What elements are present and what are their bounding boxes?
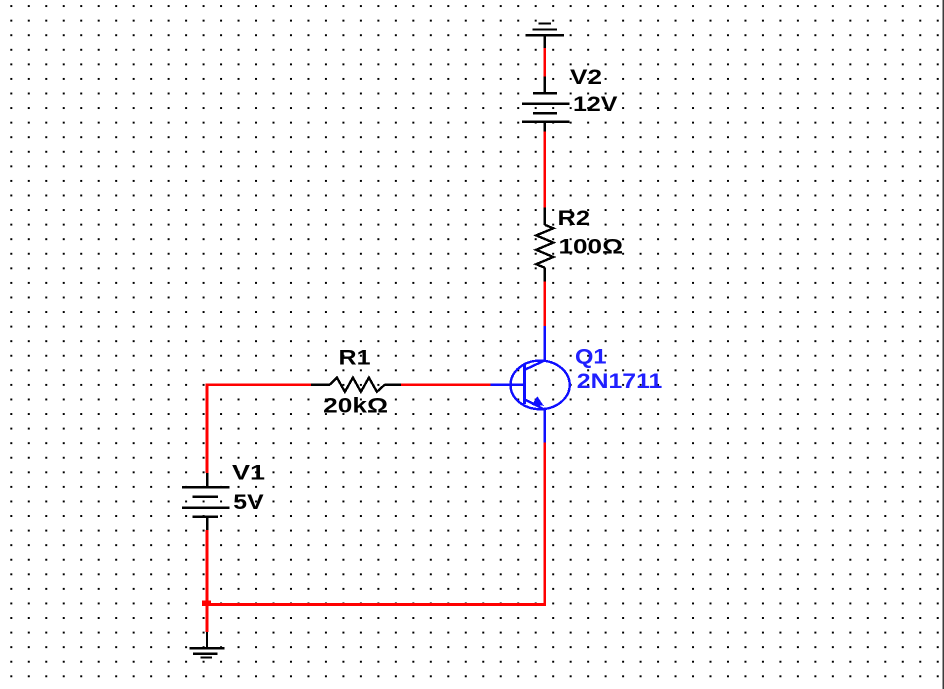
- resistor R2: [536, 208, 553, 282]
- svg-text:100Ω: 100Ω: [559, 236, 624, 259]
- wire V2 to R2: [543, 132, 546, 208]
- svg-text:5V: 5V: [233, 491, 263, 514]
- svg-text:Q1: Q1: [575, 346, 607, 369]
- junction node: [202, 600, 211, 606]
- svg-text:R1: R1: [339, 347, 371, 370]
- source V1: [182, 473, 230, 530]
- svg-text:V1: V1: [232, 462, 265, 485]
- transistor Q1: [490, 326, 569, 443]
- source V2: [522, 77, 570, 132]
- svg-text:2N1711: 2N1711: [577, 370, 663, 393]
- wire R2 to Q1 collector: [543, 282, 546, 327]
- svg-text:12V: 12V: [573, 93, 618, 116]
- ground GND1 (top): [526, 24, 565, 49]
- svg-text:20kΩ: 20kΩ: [323, 395, 388, 418]
- wire Q1 emitter down: [543, 443, 546, 606]
- right window border: [943, 0, 944, 689]
- wire R1 to Q1 base: [401, 383, 490, 386]
- resistor R1: [311, 378, 401, 392]
- svg-text:V2: V2: [570, 66, 602, 89]
- wire R1 to V1 (corner): [207, 385, 311, 473]
- ground GND2 (bottom): [189, 632, 224, 658]
- wire V1 to GND2: [206, 530, 209, 632]
- wire GND1 to V2: [543, 48, 546, 76]
- svg-text:R2: R2: [558, 207, 591, 230]
- wire bottom horizontal: [206, 603, 546, 606]
